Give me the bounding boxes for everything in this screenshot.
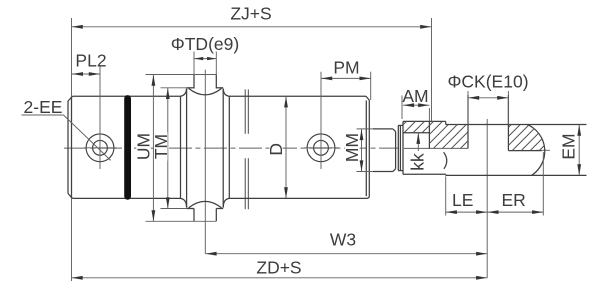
- svg-text:2-EE: 2-EE: [24, 97, 63, 117]
- svg-text:W3: W3: [330, 230, 356, 250]
- svg-text:MM: MM: [342, 133, 362, 162]
- svg-text:EM: EM: [558, 133, 578, 159]
- svg-text:D: D: [266, 143, 286, 156]
- svg-text:TM: TM: [151, 134, 171, 159]
- svg-text:ER: ER: [501, 190, 525, 210]
- svg-text:ΦCK(E10): ΦCK(E10): [447, 72, 528, 92]
- svg-text:AM: AM: [402, 86, 428, 106]
- svg-text:kk: kk: [407, 153, 427, 171]
- svg-text:PM: PM: [333, 58, 359, 78]
- svg-text:PL2: PL2: [75, 51, 106, 71]
- svg-text:ΦTD(e9): ΦTD(e9): [171, 34, 239, 54]
- svg-text:LE: LE: [452, 190, 473, 210]
- svg-text:ZD+S: ZD+S: [256, 258, 301, 278]
- svg-text:ZJ+S: ZJ+S: [230, 4, 271, 24]
